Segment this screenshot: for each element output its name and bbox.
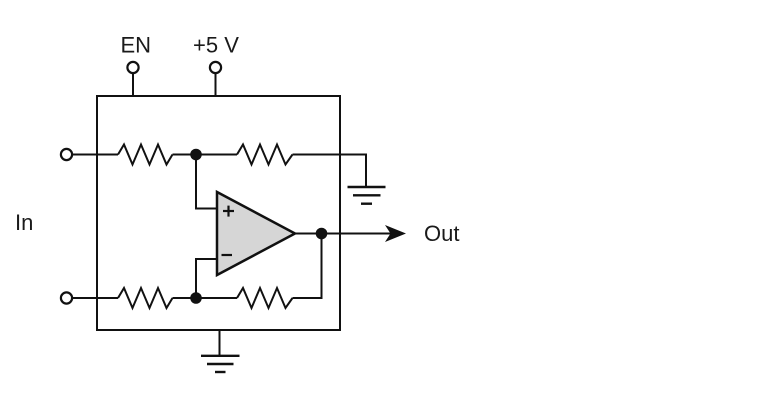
svg-text:In: In <box>15 210 33 235</box>
svg-text:+5 V: +5 V <box>193 33 239 58</box>
svg-text:EN: EN <box>121 33 152 58</box>
svg-text:Out: Out <box>424 221 459 246</box>
